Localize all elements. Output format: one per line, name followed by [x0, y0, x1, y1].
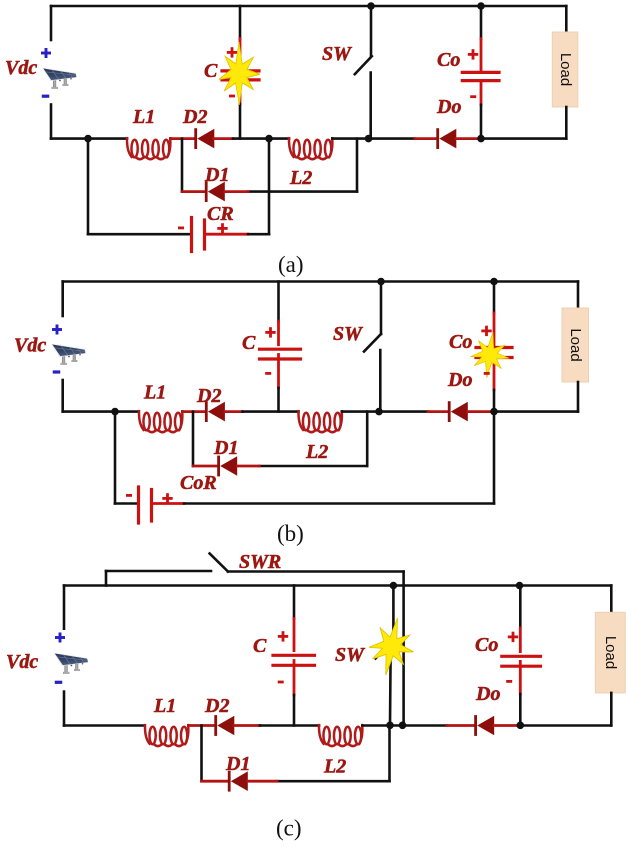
svg-text:Load: Load	[557, 53, 574, 86]
wire: Do red cathode lead	[428, 410, 448, 413]
wire: red D2 anode lead	[214, 137, 234, 140]
svg-text:C: C	[204, 60, 218, 82]
junction node: Co top on rail	[490, 278, 498, 286]
minus mark C	[265, 372, 271, 375]
plus mark Co	[481, 326, 491, 336]
wire: Do red cathode lead	[447, 724, 475, 727]
wire: Do red anode lead	[468, 410, 495, 413]
inductor L1	[145, 725, 188, 746]
wire: Do row left black	[380, 410, 428, 413]
wire: red lead L1 to D2	[182, 410, 204, 413]
wire: CR left vertical	[87, 139, 90, 235]
inductor L2	[298, 411, 341, 432]
wire: D1 red cathode lead	[182, 190, 205, 193]
junction node: SWR bottom on mid rail	[399, 722, 407, 730]
wire: mid rail D2 to L2	[260, 724, 319, 727]
junction node: SW top on rail	[377, 278, 385, 286]
svg-text:L1: L1	[143, 382, 166, 404]
minus mark CoR	[126, 494, 132, 497]
capacitor Co branch vertical	[480, 6, 483, 39]
svg-text:Do: Do	[436, 96, 461, 118]
minus mark C	[278, 681, 284, 684]
wire: D1 return vertical	[366, 412, 369, 466]
wire: red lead L1 to D2	[170, 137, 194, 140]
svg-text:CR: CR	[207, 203, 234, 225]
starburst fault on SW	[364, 613, 420, 679]
svg-text:Co: Co	[437, 49, 460, 71]
svg-text:L1: L1	[132, 106, 155, 128]
wire: D1 row black segment	[259, 465, 367, 468]
svg-text:L2: L2	[305, 441, 328, 463]
wire: top rail	[51, 5, 566, 8]
svg-text:D1: D1	[213, 437, 238, 459]
plus mark Vdc	[41, 48, 51, 58]
svg-text:C: C	[253, 635, 267, 657]
inductor L2	[289, 138, 332, 159]
svg-text:SW: SW	[335, 644, 365, 666]
junction node: SW top on rail	[390, 582, 398, 590]
wire: L2 to SW node and Do	[362, 724, 446, 727]
wire: top rail	[64, 584, 611, 587]
wire: D1 red anode lead	[237, 465, 259, 468]
inductor L1	[139, 411, 182, 432]
wire: D1 red cathode lead	[193, 465, 217, 468]
junction node: SW bottom on mid rail	[375, 408, 383, 416]
capacitor C plates	[260, 348, 301, 351]
wire: right wire top	[565, 6, 568, 32]
minus mark Co	[470, 95, 476, 98]
inductor L1	[127, 138, 170, 159]
wire: Do row right black	[481, 137, 566, 140]
plus mark Co	[508, 632, 518, 642]
wire: red lead L1 to D2	[188, 724, 214, 727]
junction node: SW bottom / L2 right	[365, 135, 373, 143]
wire: left wire upper	[61, 282, 64, 317]
svg-text:D2: D2	[204, 695, 229, 717]
wire: D1 red cathode lead	[202, 780, 229, 783]
wire: D1 red anode lead	[248, 780, 278, 783]
wire: top rail	[63, 280, 578, 283]
wire: D2 left vertical down to D1 row	[192, 412, 195, 466]
junction node: SW top on rail	[367, 2, 375, 10]
wire: D2 left vertical down to D1 row	[181, 139, 184, 192]
junction node: C bottom / L2 / CR return	[265, 135, 273, 143]
svg-text:Do: Do	[475, 683, 500, 705]
wire: red D2 anode lead	[234, 724, 260, 727]
junction node: Co top on rail	[477, 2, 485, 10]
capacitor CR plates	[190, 218, 193, 252]
plus mark C	[227, 47, 237, 57]
svg-text:D2: D2	[196, 385, 221, 407]
capacitor C plates	[273, 654, 315, 657]
junction node: Do anode / Co bottom	[517, 722, 525, 730]
switch SWR branch: left riser	[105, 571, 108, 586]
junction node: Vdc- / CoR branch	[111, 408, 119, 416]
wire: D1 row black segment	[277, 780, 390, 783]
junction node: Vdc- / CR branch	[84, 135, 92, 143]
svg-text:Vdc: Vdc	[5, 57, 37, 79]
capacitor C branch vertical	[293, 586, 296, 619]
wire: mid rail left segment	[63, 410, 138, 413]
svg-text:Co: Co	[475, 634, 498, 656]
capacitor Co plates	[476, 346, 512, 349]
wire: CoR right vertical up to Do node	[493, 412, 496, 504]
plus mark CoR	[162, 493, 172, 503]
svg-text:Vdc: Vdc	[6, 651, 38, 673]
capacitor Co branch vertical	[493, 282, 496, 314]
diode D1	[217, 456, 237, 477]
wire: Do row right black	[520, 724, 611, 727]
wire: right wire top	[610, 586, 613, 613]
wire: mid rail D2 to L2	[233, 137, 289, 140]
diode D1	[205, 181, 225, 202]
minus mark Co	[506, 680, 512, 683]
switch SWR: left wire	[106, 570, 211, 573]
svg-text:(b): (b)	[277, 521, 304, 546]
starburst fault on Co	[468, 330, 512, 381]
solar panel Vdc source	[54, 653, 89, 674]
minus mark Co	[484, 372, 490, 375]
switch SW (faulted)	[392, 586, 395, 641]
wire: D1 return vertical	[388, 726, 391, 782]
wire: left wire lower (Vdc -)	[50, 105, 53, 139]
svg-text:SWR: SWR	[239, 551, 281, 573]
wire: CR row left	[88, 233, 189, 236]
switch SWR: right wire	[228, 570, 404, 573]
svg-text:D2: D2	[182, 106, 207, 128]
wire: CoR row left	[115, 502, 136, 505]
wire: Do row right black	[494, 410, 578, 413]
wire: right wire bottom	[610, 693, 613, 726]
starburst fault on C	[219, 42, 260, 105]
minus mark CR	[178, 227, 184, 230]
capacitor Co branch vertical	[519, 586, 522, 629]
plus mark Co	[468, 49, 478, 59]
wire: mid rail left segment	[51, 137, 127, 140]
svg-text:Co: Co	[449, 331, 472, 353]
minus mark Vdc	[55, 681, 63, 684]
wire: left wire lower	[63, 692, 66, 726]
wire: left wire lower	[61, 380, 64, 412]
svg-text:(c): (c)	[276, 816, 302, 841]
svg-text:L1: L1	[153, 695, 176, 717]
junction node: SW bottom / D1 return	[386, 722, 394, 730]
plus mark CR	[217, 223, 227, 233]
diode D2	[214, 715, 234, 736]
wire: D1 red anode lead	[225, 190, 249, 193]
load box	[552, 32, 578, 107]
wire: SWR vertical down to mid rail	[402, 572, 405, 726]
plus mark Vdc	[55, 633, 65, 643]
load box	[595, 612, 625, 693]
wire: right wire bottom	[577, 382, 580, 412]
capacitor C branch vertical	[277, 282, 280, 322]
diode Do	[448, 401, 468, 422]
junction node: Do anode / Co bottom	[477, 135, 485, 143]
svg-text:CoR: CoR	[180, 472, 217, 494]
junction node: Do anode / Co bottom / CoR return	[490, 408, 498, 416]
switch SW	[380, 282, 383, 335]
svg-text:(a): (a)	[278, 252, 304, 277]
diode D2	[205, 401, 225, 422]
plus mark C	[278, 631, 288, 641]
wire: L2 to SW node	[342, 410, 380, 413]
wire: Do red anode lead	[494, 724, 520, 727]
svg-text:Vdc: Vdc	[14, 335, 46, 357]
solar panel Vdc source	[51, 344, 86, 365]
wire: D2 left vertical down to D1 row	[200, 726, 203, 782]
svg-text:L2: L2	[289, 167, 312, 189]
minus mark Vdc	[53, 370, 61, 373]
svg-text:Load: Load	[567, 328, 584, 361]
wire: Do red cathode lead	[415, 137, 437, 140]
wire: CR red lead	[206, 233, 248, 236]
wire: Do row left black	[371, 137, 415, 140]
capacitor CoR plates	[137, 487, 140, 523]
capacitor C plates	[222, 69, 259, 72]
plus mark Vdc	[52, 325, 62, 335]
minus mark Vdc	[42, 95, 50, 98]
svg-text:SW: SW	[333, 323, 363, 345]
wire: mid rail left segment	[64, 724, 144, 727]
wire: mid rail D2 to L2	[243, 410, 299, 413]
wire: left wire upper	[63, 586, 66, 629]
svg-text:D1: D1	[204, 164, 229, 186]
plus mark C	[265, 327, 275, 337]
diode D1	[228, 771, 248, 792]
diode Do	[436, 128, 456, 149]
svg-text:SW: SW	[322, 43, 352, 65]
wire: Do red anode lead	[456, 137, 481, 140]
wire: left wire upper (Vdc +)	[50, 6, 53, 40]
capacitor C branch vertical	[239, 6, 242, 39]
capacitor Co plates	[462, 71, 499, 74]
wire: CoR row right black	[184, 502, 494, 505]
capacitor Co plates	[502, 655, 541, 658]
diode Do	[474, 715, 494, 736]
svg-text:C: C	[242, 332, 256, 354]
minus mark C	[229, 95, 235, 98]
switch SWR: blade	[210, 554, 228, 572]
svg-text:D1: D1	[225, 753, 250, 775]
wire: node C-L2 vertical to CR	[268, 139, 271, 235]
diode D2	[194, 128, 214, 149]
junction node: Co top on rail	[516, 582, 524, 590]
wire: CoR left vertical	[114, 412, 117, 504]
wire: right wire bottom	[565, 107, 568, 139]
wire: CoR red lead	[153, 502, 184, 505]
wire: CR row right black	[248, 233, 269, 236]
svg-text:Load: Load	[602, 636, 619, 669]
switch SW	[370, 6, 373, 56]
wire: L2 to SW node	[332, 137, 371, 140]
wire: red D2 anode lead	[225, 410, 243, 413]
wire: D1 row black segment	[248, 190, 357, 193]
svg-text:L2: L2	[323, 756, 346, 778]
svg-text:Do: Do	[447, 369, 472, 391]
solar panel Vdc source	[42, 68, 77, 89]
load box	[562, 308, 589, 382]
inductor L2	[319, 725, 362, 746]
wire: D1 return vertical	[356, 139, 359, 192]
wire: right wire top	[577, 282, 580, 309]
